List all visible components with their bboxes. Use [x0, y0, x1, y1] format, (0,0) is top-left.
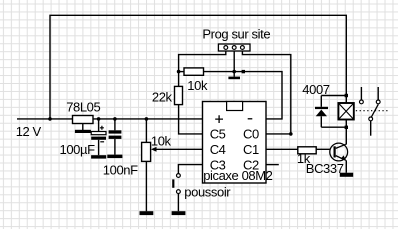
capacitor C1 100uF	[91, 119, 106, 155]
wire C3 to push button	[178, 165, 202, 174]
switch SW2 relay contacts	[360, 87, 381, 136]
wire top loop from rail to relay	[50, 15, 346, 119]
svg-text:C4: C4	[210, 142, 226, 157]
wire end square	[242, 70, 245, 73]
pin label +	[215, 115, 223, 123]
wire connector pin2	[233, 51, 235, 72]
ground (push button)	[172, 211, 186, 215]
junction dot (100nF / rail)	[113, 117, 117, 121]
dotted actuator link	[356, 110, 388, 112]
svg-text:Prog sur site: Prog sur site	[202, 27, 270, 42]
svg-text:picaxe 08M2: picaxe 08M2	[203, 168, 272, 183]
transistor Q1 BC337	[330, 127, 348, 172]
svg-text:C5: C5	[210, 127, 226, 142]
svg-text:poussoir: poussoir	[184, 185, 231, 200]
junction dot (pot / rail)	[145, 117, 149, 121]
wire ground net to chip minus pin	[243, 72, 282, 119]
svg-text:10k: 10k	[151, 134, 172, 149]
regulator U1 78L05	[73, 116, 94, 124]
junction square (relay bottom)	[345, 126, 348, 129]
svg-text:78L05: 78L05	[66, 100, 100, 115]
wire 1k to base	[316, 148, 330, 150]
wire diode top link	[321, 95, 346, 97]
wire regulator ground pin	[82, 124, 84, 131]
ground (regulator)	[75, 130, 91, 133]
relay K1 coil	[338, 96, 353, 128]
connector J1 prog	[218, 44, 250, 51]
resistor R2 10k horizontal	[179, 68, 244, 75]
junction dot (ground net)	[232, 70, 236, 74]
ground (100nF)	[107, 155, 122, 159]
junction dot (100uF / rail)	[97, 117, 101, 121]
wire 12V rail left	[17, 118, 73, 120]
wire C1 to 1k	[266, 148, 298, 150]
wire connector pin3 to C0	[242, 51, 290, 134]
svg-text:BC337: BC337	[306, 161, 344, 176]
diode D1 4007	[315, 96, 328, 128]
resistor R1 22k	[175, 72, 203, 134]
ground (pot)	[140, 211, 154, 215]
svg-text:C1: C1	[243, 142, 259, 157]
potentiometer RV1 10k	[142, 119, 203, 211]
svg-text:12 V: 12 V	[16, 124, 42, 139]
svg-text:22k: 22k	[152, 90, 173, 105]
junction dot (C0)	[289, 132, 293, 136]
wire diode bottom link	[321, 126, 346, 128]
wire ground stub	[233, 72, 235, 77]
wire C0 stub	[266, 133, 291, 135]
pin label -	[248, 118, 253, 120]
IC U2 picaxe 08M2	[203, 102, 267, 184]
svg-text:100µF: 100µF	[60, 142, 96, 157]
resistor R3 1k	[298, 147, 316, 154]
push button SW1 poussoir	[172, 174, 180, 212]
wire connector pin1	[179, 51, 226, 72]
junction dot (top wire / rail)	[48, 117, 52, 121]
svg-text:10k: 10k	[187, 78, 208, 93]
ground (emitter)	[340, 173, 353, 177]
svg-text:100nF: 100nF	[103, 162, 138, 177]
wire C2 stub	[266, 164, 279, 166]
junction dot (pin1/22k/10k)	[177, 70, 181, 74]
wire 5V rail from regulator to chip + pin	[93, 118, 203, 120]
ground (connector)	[228, 77, 240, 80]
junction square (relay top)	[345, 94, 348, 97]
ground (100uF)	[91, 155, 106, 158]
capacitor C2 100nF	[109, 119, 122, 155]
svg-text:4007: 4007	[302, 82, 329, 97]
svg-text:C0: C0	[243, 127, 259, 142]
